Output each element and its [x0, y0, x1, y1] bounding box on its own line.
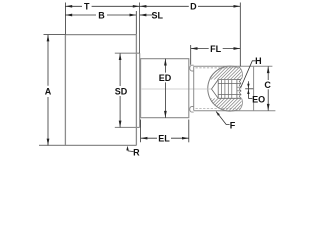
label R leader [128, 148, 134, 152]
worm end face [236, 80, 238, 99]
bore circle [208, 66, 238, 111]
worm end zigzag [239, 80, 241, 99]
worm thread root lines [218, 83, 237, 94]
worm cone [212, 80, 219, 99]
svg-text:SL: SL [152, 10, 164, 20]
worm thread lines [222, 80, 232, 99]
svg-text:C: C [264, 80, 271, 90]
hidden dashed line top [196, 67, 240, 69]
section hatching [150, 54, 302, 114]
svg-text:H: H [255, 56, 262, 66]
dimension T [65, 3, 139, 35]
flange ear bottom [190, 107, 194, 113]
svg-text:T: T [84, 2, 90, 12]
dimension EL [141, 120, 189, 143]
dimension C [267, 66, 269, 110]
label H leader [241, 61, 256, 87]
mounting flange [193, 66, 195, 110]
worm end thread ticks [237, 80, 241, 99]
dimension A [44, 35, 66, 146]
svg-text:R: R [133, 147, 140, 157]
dimension D [140, 3, 241, 67]
centerline [142, 88, 212, 90]
base line [39, 144, 136, 146]
dimension B [65, 11, 136, 34]
adapter ring [115, 53, 140, 127]
svg-text:EO: EO [252, 94, 265, 104]
flange ear top [190, 65, 194, 71]
svg-text:A: A [45, 87, 52, 97]
motor body [65, 35, 136, 146]
svg-text:FL: FL [210, 44, 221, 54]
dimension FL [191, 45, 241, 65]
svg-text:D: D [190, 2, 197, 12]
counterbore fillet arc bottom right [239, 98, 243, 111]
label F leader [216, 112, 230, 125]
counterbore fillet arc top right [239, 67, 243, 80]
extension line shaft tip [139, 3, 141, 54]
worm cylinder [218, 80, 241, 99]
svg-text:B: B [98, 10, 105, 20]
dimension ED [164, 59, 166, 118]
end bell [141, 59, 189, 118]
svg-text:EL: EL [158, 134, 170, 144]
dimension EO [245, 81, 253, 98]
dimension SD [119, 53, 121, 127]
svg-text:SD: SD [115, 86, 128, 96]
hidden dashed line bottom [196, 107, 240, 109]
dimension SL [140, 14, 153, 16]
svg-text:ED: ED [159, 73, 172, 83]
gear housing outline [194, 66, 276, 111]
svg-text:F: F [230, 121, 236, 131]
worm mask [211, 79, 241, 99]
